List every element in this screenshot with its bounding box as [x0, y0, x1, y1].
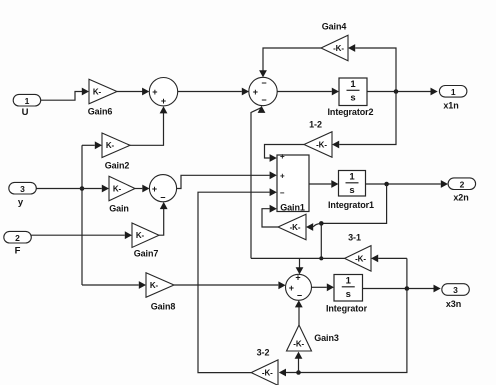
- gain Gain4: [321, 35, 348, 61]
- svg-text:−: −: [261, 95, 266, 105]
- svg-text:1: 1: [346, 276, 352, 287]
- svg-text:-K-: -K-: [290, 223, 301, 232]
- wire Gain to Sum3: [135, 188, 142, 190]
- svg-text:s: s: [346, 289, 351, 300]
- svg-text:Gain1: Gain1: [280, 203, 305, 213]
- wire y port to Gain: [36, 188, 102, 190]
- input port 1 (U): [13, 94, 41, 106]
- svg-text:-K-: -K-: [355, 254, 366, 263]
- wire Gain7 to Sum3 bottom: [159, 206, 164, 236]
- gain Gain1 (feedback): [278, 214, 306, 240]
- svg-text:K-: K-: [113, 184, 122, 193]
- svg-text:−: −: [297, 290, 302, 300]
- gain 3-2: [251, 360, 278, 385]
- wire Gain8 to Sum4: [174, 284, 278, 286]
- gain Gain7: [132, 223, 159, 248]
- wire horizontal rail y=258: [251, 257, 345, 259]
- svg-text:+: +: [280, 172, 285, 181]
- svg-text:1: 1: [25, 96, 30, 106]
- wire Gain 3-1 input from x3 feedback: [378, 257, 407, 259]
- svg-text:Gain6: Gain6: [88, 107, 113, 117]
- svg-text:2: 2: [15, 233, 20, 243]
- wire U port to Gain6: [40, 92, 82, 101]
- input port 3 (y): [9, 182, 37, 194]
- svg-text:3-1: 3-1: [348, 233, 361, 243]
- node rail T junction: [319, 256, 323, 260]
- wire Integrator to x3n: [363, 288, 434, 290]
- node gain1-feedback junction: [319, 221, 324, 226]
- wire hook into Gain1 input: [313, 223, 321, 227]
- svg-text:x3n: x3n: [446, 299, 461, 309]
- svg-text:Gain7: Gain7: [134, 249, 159, 259]
- svg-text:s: s: [350, 93, 355, 104]
- wire Gain3 output to Sum4 bottom: [298, 304, 300, 325]
- sum Sum3: [149, 175, 176, 202]
- svg-text:3-2: 3-2: [257, 348, 270, 358]
- gain Gain8: [146, 273, 174, 298]
- svg-text:Integrator1: Integrator1: [328, 200, 374, 210]
- wire junction down to x2 rail: [320, 223, 322, 258]
- svg-text:-K-: -K-: [262, 369, 273, 378]
- svg-text:1-2: 1-2: [309, 120, 322, 130]
- wire Integrator1 to x2n: [366, 183, 441, 185]
- wire x3 feedback down and left: [286, 289, 407, 373]
- node integrator-output junction: [405, 286, 410, 291]
- wire rail to Gain8 input: [82, 284, 139, 286]
- wire Sum1 to Sum2: [178, 91, 242, 93]
- sum Sum1: [149, 78, 177, 106]
- wire x3 feedback vertical upper: [406, 258, 408, 288]
- svg-text:1: 1: [451, 87, 456, 97]
- svg-text:y: y: [18, 197, 24, 208]
- svg-text:K-: K-: [93, 87, 102, 96]
- svg-text:Gain4: Gain4: [322, 22, 347, 32]
- wire Integrator2 to x1n (junction at node): [367, 91, 431, 93]
- svg-text:Gain3: Gain3: [314, 333, 339, 343]
- svg-text:x2n: x2n: [453, 193, 468, 203]
- wire Integrator1 feedback down-left: [321, 184, 386, 223]
- wire Gain1 output to Sum block input 4: [262, 209, 278, 227]
- svg-text:+: +: [280, 152, 285, 161]
- wire rail down to Sum4 top: [299, 258, 301, 270]
- svg-text:x1n: x1n: [443, 101, 458, 111]
- wire Gain 1-2 output to Sum block input 1: [265, 145, 305, 159]
- wire F port to Gain7: [31, 234, 125, 236]
- svg-text:-K-: -K-: [293, 339, 304, 348]
- wire Sum3 to Sum block input 2: [177, 175, 270, 188]
- svg-text:+: +: [289, 283, 294, 293]
- svg-text:−: −: [160, 192, 165, 202]
- wire Gain4 output to Sum2 top: [263, 48, 321, 74]
- output port 1 (x1n): [439, 86, 467, 98]
- wire Sum block to Integrator1: [309, 183, 331, 185]
- svg-text:K-: K-: [106, 141, 115, 150]
- svg-text:K-: K-: [136, 231, 145, 240]
- svg-text:1: 1: [350, 79, 356, 90]
- svg-text:-K-: -K-: [333, 44, 344, 53]
- integrator Integrator2: [339, 78, 367, 106]
- gain Gain3: [287, 325, 312, 351]
- wire feedback down to Gain 1-2 input: [339, 92, 396, 145]
- svg-text:−: −: [261, 78, 266, 88]
- integrator Integrator1: [339, 171, 366, 197]
- wire rail to Gain2 input: [82, 144, 95, 146]
- svg-text:2: 2: [460, 179, 465, 189]
- node y-rail junction: [80, 186, 85, 191]
- gain 3-1: [345, 246, 371, 272]
- svg-text:F: F: [15, 246, 21, 257]
- node integrator1-output junction: [384, 182, 389, 187]
- wire Gain 3-2 output to Sum block input 3: [198, 192, 270, 372]
- svg-text:-K-: -K-: [316, 140, 327, 149]
- svg-text:K-: K-: [150, 281, 159, 290]
- wire Sum2 to Integrator2: [277, 91, 332, 93]
- input port 2 (F): [4, 231, 32, 243]
- svg-text:Integrator: Integrator: [326, 303, 368, 313]
- svg-text:Gain: Gain: [109, 204, 129, 214]
- svg-text:+: +: [161, 96, 166, 106]
- sum Sum4: [286, 274, 312, 300]
- svg-text:+: +: [152, 87, 157, 97]
- gain Gain2: [102, 133, 130, 158]
- svg-text:s: s: [349, 185, 354, 196]
- wire Sum4 to Integrator: [312, 286, 327, 288]
- wire y vertical rail to Gain2: [81, 145, 83, 285]
- wire Gain2 to Sum1 bottom: [130, 110, 164, 145]
- wire junction up to Gain3 input: [298, 355, 300, 372]
- svg-text:3: 3: [20, 184, 25, 194]
- svg-text:−: −: [280, 189, 285, 198]
- gain 1-2: [304, 132, 332, 158]
- wire feedback up to Gain4 input: [355, 48, 396, 92]
- output port 2 (x2n): [448, 178, 476, 190]
- integrator Integrator: [334, 275, 363, 302]
- svg-text:Gain8: Gain8: [151, 301, 176, 311]
- sum Sum2: [249, 77, 277, 105]
- node integrator2-output junction: [394, 89, 399, 94]
- svg-text:3: 3: [453, 285, 458, 295]
- gain Gain: [109, 176, 135, 201]
- svg-text:Integrator2: Integrator2: [328, 107, 374, 117]
- svg-text:Gain2: Gain2: [105, 160, 130, 170]
- gain Gain6: [89, 79, 117, 104]
- svg-text:+: +: [253, 87, 258, 97]
- svg-text:U: U: [22, 107, 29, 118]
- wire Gain6 to Sum1: [117, 91, 143, 93]
- svg-text:1: 1: [349, 172, 355, 183]
- node gain3-input junction: [296, 370, 301, 375]
- sum block (rectangular Sum): [277, 155, 309, 212]
- wire rail up to Sum2 bottom with jog: [251, 108, 262, 259]
- svg-text:+: +: [295, 273, 300, 283]
- svg-text:+: +: [152, 184, 157, 194]
- output port 3 (x3n): [442, 284, 470, 296]
